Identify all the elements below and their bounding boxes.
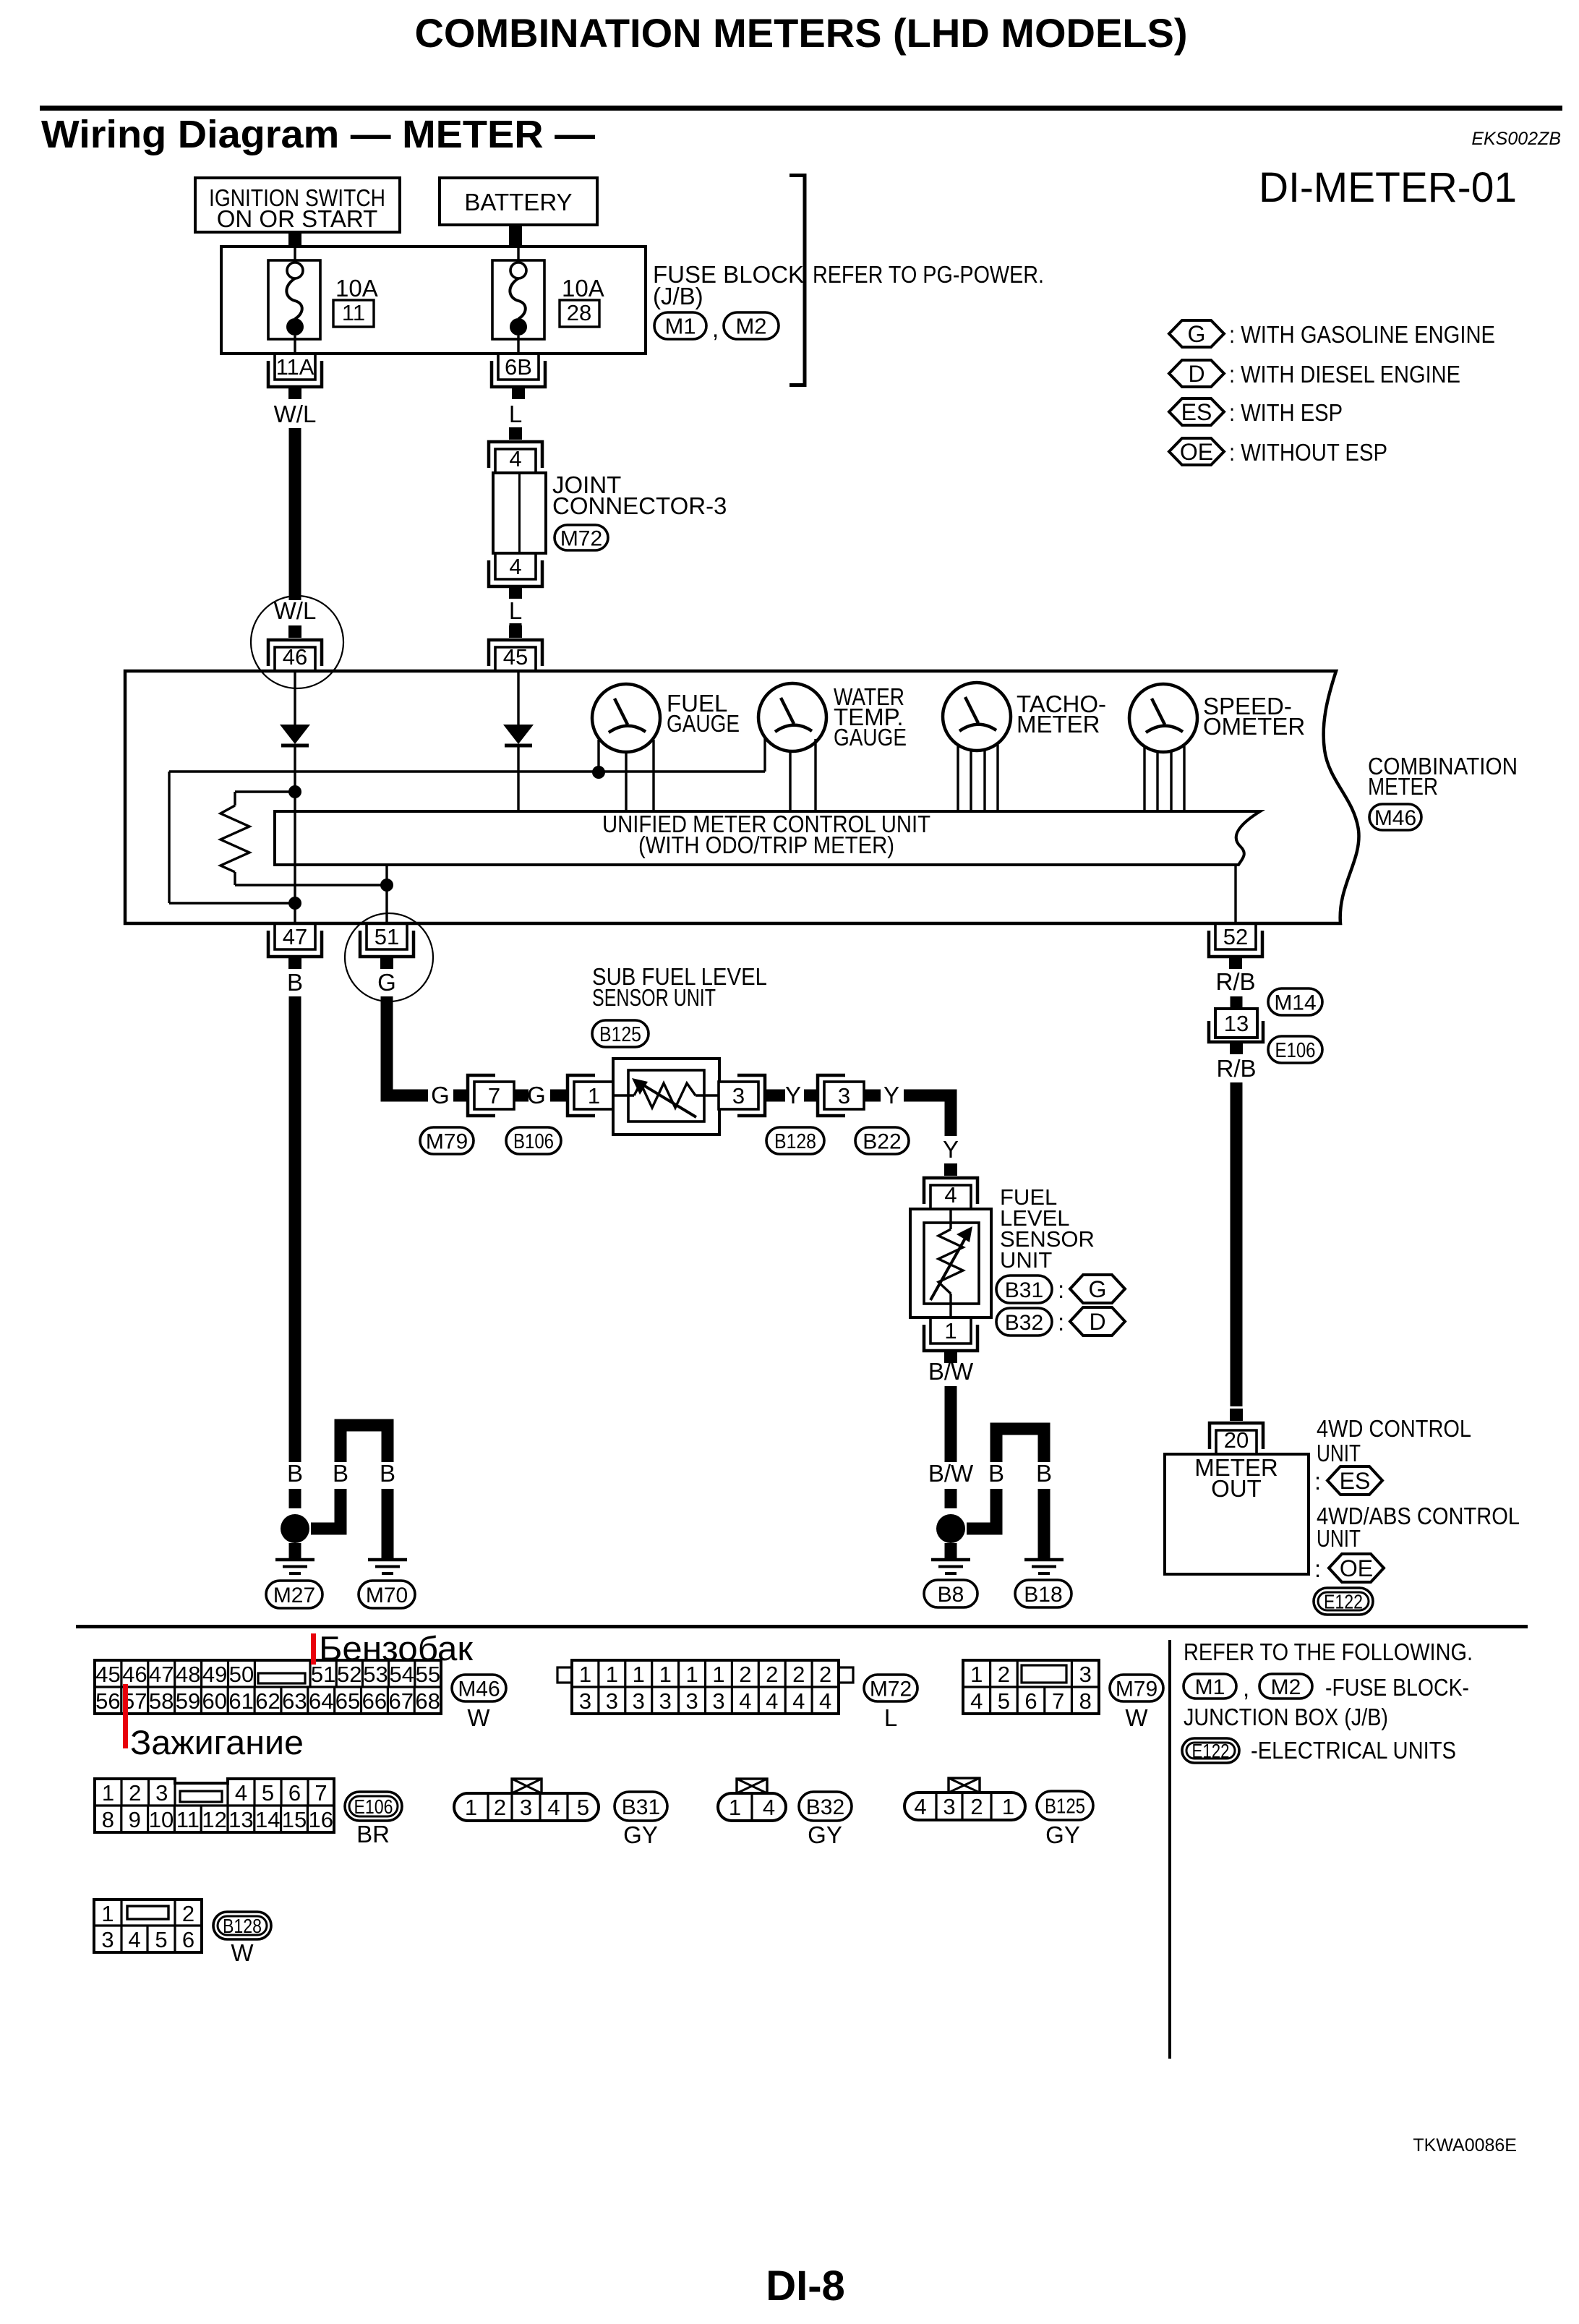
svg-text:7: 7 (1052, 1688, 1064, 1714)
svg-text:COMBINATION METERS (LHD MODELS: COMBINATION METERS (LHD MODELS) (415, 10, 1188, 56)
resistor bottom link (235, 884, 387, 886)
svg-text:4: 4 (792, 1688, 805, 1714)
wire into fuse 11 (294, 247, 296, 262)
svg-text:10: 10 (149, 1807, 174, 1832)
svg-text:14: 14 (255, 1807, 280, 1832)
svg-text:45: 45 (503, 644, 528, 670)
svg-text:3: 3 (1079, 1662, 1092, 1687)
connector M2 ref (1259, 1674, 1312, 1699)
svg-text:-FUSE BLOCK-: -FUSE BLOCK- (1325, 1674, 1469, 1701)
ground loop wire right (967, 1489, 996, 1529)
connector E122 label mid (1314, 1588, 1373, 1615)
diode 2 (503, 725, 534, 744)
connector B128 oval (213, 1912, 271, 1939)
svg-text:E122: E122 (1192, 1740, 1230, 1762)
svg-text::: : (1314, 1555, 1321, 1582)
wire W/L (289, 428, 301, 600)
svg-text:M2: M2 (1271, 1675, 1301, 1699)
red annotation line fuel tank (311, 1633, 316, 1665)
wire B/W (945, 1386, 957, 1462)
terminal 6B (498, 354, 539, 380)
wire from fuse 11 (294, 336, 296, 354)
svg-text:12: 12 (202, 1807, 226, 1832)
svg-text:GAUGE: GAUGE (834, 724, 907, 751)
svg-text:G: G (1188, 321, 1206, 347)
svg-text:7: 7 (488, 1083, 500, 1108)
resistor top link (235, 790, 295, 793)
svg-text:GAUGE: GAUGE (667, 710, 740, 737)
svg-text:5: 5 (155, 1927, 167, 1952)
connector E122 ref (1182, 1738, 1239, 1763)
connector E106 oval (345, 1792, 402, 1821)
svg-text:D: D (1188, 361, 1204, 387)
svg-text:1: 1 (944, 1318, 957, 1343)
joint connector terminal 4 upper (509, 427, 522, 440)
svg-text:2: 2 (998, 1662, 1010, 1687)
fuse number 11 (333, 300, 374, 327)
connector M79 oval (1110, 1675, 1163, 1701)
svg-text:2: 2 (129, 1780, 141, 1806)
svg-text:B: B (380, 1460, 395, 1487)
joint connector-3 body (493, 473, 546, 553)
svg-text:Wiring Diagram — METER —: Wiring Diagram — METER — (41, 113, 595, 156)
ground junction dot left (281, 1514, 309, 1543)
connector M79 label (420, 1127, 474, 1154)
svg-text:L: L (884, 1704, 897, 1731)
tachometer legs (957, 745, 959, 811)
svg-text:: WITH GASOLINE ENGINE: : WITH GASOLINE ENGINE (1229, 321, 1495, 348)
wire 46 to diode (294, 671, 296, 725)
terminal 45 (509, 625, 522, 638)
svg-text:2: 2 (494, 1795, 506, 1820)
svg-text:46: 46 (283, 644, 307, 670)
connector E106 pin grid (95, 1779, 334, 1832)
wire Y bend (904, 1095, 951, 1136)
connector M72 label (555, 525, 608, 550)
ground M27 label (266, 1581, 322, 1608)
wire stub 3 to Y (765, 1090, 785, 1102)
svg-text:4: 4 (509, 554, 521, 579)
svg-text:M46: M46 (1374, 806, 1416, 830)
svg-text:4: 4 (763, 1795, 775, 1820)
connector B125 pin row (949, 1778, 980, 1793)
terminal 13 bracket (1209, 1021, 1263, 1042)
connector M46 oval (452, 1675, 506, 1701)
svg-text:3: 3 (685, 1688, 698, 1714)
fuel sensor inner box (924, 1223, 979, 1304)
svg-text:Зажигание: Зажигание (130, 1723, 304, 1761)
variant hexagon D (1070, 1307, 1125, 1336)
connector B31 pin row (512, 1779, 542, 1793)
variant hexagon OE (1329, 1554, 1384, 1582)
svg-text:ON OR START: ON OR START (217, 205, 377, 232)
svg-text:M2: M2 (735, 314, 766, 339)
svg-text:64: 64 (309, 1688, 333, 1714)
terminal 1 sub sensor (568, 1075, 595, 1116)
svg-text:4: 4 (509, 446, 521, 471)
svg-text:8: 8 (102, 1807, 114, 1832)
svg-text:5: 5 (262, 1780, 274, 1806)
svg-text:B: B (988, 1460, 1004, 1487)
ground junction dot right (936, 1514, 965, 1543)
joint connector terminal 4 lower (495, 553, 536, 579)
svg-text:B32: B32 (806, 1795, 844, 1819)
terminal 52 (1215, 923, 1256, 949)
svg-text:1: 1 (685, 1662, 698, 1687)
svg-text:45: 45 (95, 1662, 120, 1687)
svg-text:B: B (287, 1460, 303, 1487)
internal left vertical wire (168, 772, 170, 903)
svg-text:: WITH DIESEL ENGINE: : WITH DIESEL ENGINE (1229, 361, 1460, 388)
svg-text:M72: M72 (870, 1677, 912, 1701)
connector E106 label mid (1268, 1036, 1322, 1063)
svg-text:B: B (333, 1460, 348, 1487)
ground M70 label (359, 1581, 415, 1608)
svg-text:Y: Y (943, 1136, 959, 1163)
wire B right leg (382, 1489, 394, 1560)
svg-text:L: L (509, 401, 522, 427)
wire L stub 2 (510, 623, 522, 637)
wire ignition to fuse block (288, 232, 301, 247)
wire B/W below dot (945, 1543, 957, 1558)
svg-text:R/B: R/B (1215, 968, 1255, 995)
svg-text:6: 6 (182, 1927, 194, 1952)
legend hexagon G (1169, 320, 1224, 347)
svg-text:UNIT: UNIT (1000, 1247, 1052, 1273)
fuel sensor resistor (949, 1209, 951, 1229)
svg-text:6: 6 (1024, 1688, 1037, 1714)
svg-text:49: 49 (202, 1662, 227, 1687)
svg-text:OE: OE (1180, 439, 1213, 465)
svg-text:(WITH ODO/TRIP METER): (WITH ODO/TRIP METER) (638, 832, 894, 858)
svg-text:48: 48 (176, 1662, 200, 1687)
terminal 46 highlight circle (251, 596, 343, 688)
svg-text:REFER TO PG-POWER.: REFER TO PG-POWER. (813, 261, 1044, 288)
svg-text:11A: 11A (276, 354, 314, 380)
ground symbol B8 (931, 1558, 970, 1562)
wire B stub to dot (289, 1489, 301, 1508)
bracket refer to PG-POWER (803, 174, 807, 387)
svg-text:6B: 6B (505, 354, 532, 380)
svg-text:B8: B8 (938, 1583, 964, 1607)
ground loop wire left (311, 1489, 341, 1529)
svg-text:B32: B32 (1005, 1311, 1043, 1335)
svg-text:GY: GY (623, 1821, 658, 1848)
connector B106 label (506, 1127, 561, 1154)
speedometer legs (1143, 746, 1145, 811)
diode 1 (280, 725, 310, 744)
svg-text:W/L: W/L (274, 597, 317, 624)
svg-text:DI-METER-01: DI-METER-01 (1259, 164, 1517, 211)
svg-text:1: 1 (659, 1662, 672, 1687)
junction dot 51 wire (380, 879, 393, 892)
svg-text:R/B: R/B (1216, 1055, 1256, 1082)
terminal 20 (1230, 1409, 1243, 1421)
svg-text:OUT: OUT (1211, 1475, 1262, 1502)
svg-text:4: 4 (819, 1688, 831, 1714)
terminal 3 sub sensor (737, 1075, 765, 1116)
svg-text:: WITHOUT ESP: : WITHOUT ESP (1229, 439, 1387, 466)
sub fuel level sensor unit box (613, 1059, 719, 1135)
svg-text:Бензобак: Бензобак (319, 1629, 473, 1667)
fuel gauge left leg (597, 740, 599, 772)
svg-text:Y: Y (785, 1082, 801, 1108)
svg-text:1: 1 (606, 1662, 618, 1687)
ground B8 label (924, 1580, 977, 1607)
terminal 4 fuel sensor (944, 1163, 957, 1176)
svg-text:TKWA0086E: TKWA0086E (1413, 2135, 1517, 2156)
svg-text:B125: B125 (1045, 1795, 1085, 1818)
internal bus top wire (169, 770, 765, 772)
connector M72 pin grid (557, 1660, 853, 1714)
wire into fuse 28 (517, 247, 519, 262)
svg-text:52: 52 (1223, 924, 1248, 949)
terminal 46 (288, 625, 301, 638)
wire diode2 to control unit (517, 746, 519, 811)
wire Y stub (804, 1090, 818, 1102)
unified meter control unit box (275, 811, 1260, 865)
svg-text:B: B (287, 969, 303, 996)
wire diode1 to junction (294, 746, 296, 792)
svg-text:50: 50 (229, 1662, 254, 1687)
connector B128 pin grid (94, 1900, 202, 1952)
svg-text::: : (1058, 1309, 1064, 1336)
wire 52 vertical (1234, 865, 1236, 923)
svg-text:B/W: B/W (928, 1460, 974, 1487)
svg-text:E106: E106 (354, 1795, 393, 1818)
svg-text:4: 4 (914, 1794, 926, 1819)
legend hexagon D (1169, 360, 1224, 387)
svg-text:5: 5 (998, 1688, 1010, 1714)
sub sensor resistor (613, 1094, 634, 1096)
svg-text:M1: M1 (664, 314, 696, 339)
svg-text:68: 68 (415, 1688, 440, 1714)
connector B22 label (855, 1127, 909, 1154)
svg-text:47: 47 (149, 1662, 174, 1687)
resistor R (221, 806, 249, 872)
section separator line (76, 1625, 1528, 1628)
svg-text:GY: GY (1045, 1821, 1080, 1848)
svg-text:4: 4 (235, 1780, 247, 1806)
connector M46 pin grid (95, 1660, 441, 1714)
svg-text:1: 1 (102, 1780, 114, 1806)
svg-text:METER: METER (1368, 773, 1438, 800)
svg-text:B106: B106 (513, 1130, 554, 1153)
svg-text:7: 7 (314, 1780, 327, 1806)
svg-text:3: 3 (520, 1795, 532, 1820)
svg-text:59: 59 (176, 1688, 200, 1714)
connector B31 oval (615, 1792, 667, 1821)
svg-text:W/L: W/L (274, 401, 317, 427)
svg-text::: : (1314, 1468, 1321, 1495)
legend hexagon OE (1169, 438, 1224, 465)
svg-text:3: 3 (659, 1688, 672, 1714)
wire R/B long (1231, 1082, 1243, 1406)
svg-text:15: 15 (282, 1807, 307, 1832)
wire G stub (453, 1090, 468, 1102)
wire B/W stub to dot (945, 1489, 957, 1508)
connector B32 pin row (737, 1779, 767, 1793)
ignition switch box (195, 178, 400, 232)
connector B125 oval (1037, 1791, 1093, 1820)
svg-text:28: 28 (567, 300, 591, 325)
connector B32 label (996, 1308, 1052, 1336)
junction dot lower (288, 897, 301, 910)
svg-text:M72: M72 (560, 526, 602, 550)
svg-text:B128: B128 (774, 1130, 816, 1153)
wire G bend (387, 996, 428, 1095)
fuse block box (221, 247, 646, 354)
wire B below dot (289, 1543, 301, 1558)
junction dot fuel gauge (592, 766, 605, 779)
svg-text:4: 4 (547, 1795, 560, 1820)
svg-text:20: 20 (1224, 1427, 1249, 1453)
connector M2 (724, 312, 779, 339)
connector M46 label (1369, 804, 1421, 830)
svg-text:9: 9 (129, 1807, 141, 1832)
wire from fuse 28 (517, 336, 519, 354)
svg-text:D: D (1089, 1309, 1105, 1335)
variant hexagon ES (1327, 1466, 1382, 1495)
svg-text:,: , (1243, 1675, 1249, 1701)
ground B18 label (1015, 1580, 1071, 1607)
svg-text:M27: M27 (273, 1584, 315, 1607)
svg-text:6: 6 (288, 1780, 301, 1806)
connector M1 ref (1184, 1674, 1236, 1699)
svg-text:2: 2 (182, 1901, 194, 1926)
legend hexagon ES (1169, 398, 1224, 425)
variant hexagon G (1070, 1275, 1125, 1303)
svg-text:M14: M14 (1274, 991, 1316, 1014)
svg-text:65: 65 (335, 1688, 360, 1714)
ground symbol M70 (368, 1558, 407, 1562)
svg-text:W: W (231, 1939, 254, 1966)
svg-text:B: B (1036, 1460, 1052, 1487)
svg-text:13: 13 (1224, 1011, 1249, 1036)
svg-text:66: 66 (362, 1688, 387, 1714)
wire 47 over control unit (294, 811, 296, 865)
svg-text:4WD CONTROL: 4WD CONTROL (1317, 1415, 1471, 1442)
svg-text:M70: M70 (366, 1584, 408, 1607)
water temp gauge legs (789, 751, 791, 811)
svg-text:67: 67 (389, 1688, 414, 1714)
svg-text:G: G (377, 969, 396, 996)
combination meter box (125, 671, 1359, 923)
svg-text:G: G (1089, 1276, 1107, 1302)
svg-text:,: , (712, 315, 719, 342)
title rule (40, 106, 1562, 111)
svg-text:W: W (467, 1704, 490, 1731)
svg-text:2: 2 (819, 1662, 831, 1687)
svg-text:3: 3 (155, 1780, 168, 1806)
connector B32 oval (799, 1792, 852, 1821)
svg-text:56: 56 (95, 1688, 120, 1714)
fuel gauge (592, 684, 660, 752)
svg-text:METER: METER (1017, 711, 1100, 738)
ground loop top left (341, 1425, 388, 1462)
svg-text:2: 2 (970, 1794, 983, 1819)
terminal 47 (275, 923, 315, 949)
svg-text:BATTERY: BATTERY (464, 189, 572, 215)
terminal 1 fuel sensor (930, 1317, 971, 1343)
connector B128 label (766, 1127, 824, 1154)
battery box (440, 178, 597, 225)
wire 47 vertical (294, 792, 296, 923)
connector M79 pin grid (963, 1660, 1099, 1714)
svg-text:4: 4 (128, 1927, 140, 1952)
svg-text:60: 60 (202, 1688, 227, 1714)
svg-text:3: 3 (712, 1688, 724, 1714)
svg-text:5: 5 (577, 1795, 589, 1820)
svg-text:L: L (509, 597, 522, 624)
svg-text:M46: M46 (458, 1677, 500, 1701)
svg-text:61: 61 (228, 1688, 253, 1714)
terminal 51 (367, 923, 407, 949)
fuel sensor wiper arrow (930, 1236, 967, 1300)
svg-text:B18: B18 (1024, 1583, 1062, 1607)
svg-text:10A: 10A (335, 275, 378, 302)
ground symbol M27 (275, 1558, 314, 1562)
connector B125 label (592, 1020, 649, 1047)
fuel level sensor unit box (910, 1209, 991, 1317)
svg-text:3: 3 (579, 1688, 591, 1714)
svg-text:M79: M79 (426, 1129, 468, 1153)
svg-text:BR: BR (356, 1821, 390, 1847)
svg-text:B125: B125 (599, 1023, 641, 1046)
fuse 28 (10A) (492, 260, 544, 339)
svg-text:63: 63 (282, 1688, 307, 1714)
svg-text:OMETER: OMETER (1203, 713, 1305, 740)
red annotation line ignition (123, 1684, 128, 1748)
svg-text:E122: E122 (1324, 1591, 1363, 1613)
terminal 3 harness (818, 1075, 845, 1116)
wire stub 7 to G (514, 1090, 529, 1102)
wire R/B stub (1231, 996, 1243, 1009)
svg-text:13: 13 (228, 1807, 253, 1832)
svg-text:46: 46 (122, 1662, 147, 1687)
svg-text:M1: M1 (1195, 1675, 1225, 1699)
svg-text:3: 3 (732, 1083, 745, 1108)
svg-text:B/W: B/W (928, 1358, 974, 1385)
connector M14 label (1268, 988, 1322, 1015)
wire G stub 2 (550, 1090, 568, 1102)
tachometer gauge (943, 683, 1011, 751)
svg-text:1: 1 (101, 1901, 114, 1926)
connector B31 label (996, 1276, 1052, 1303)
terminal 13 box (1215, 1009, 1257, 1038)
svg-text:11: 11 (176, 1807, 200, 1832)
svg-text:1: 1 (970, 1662, 983, 1687)
terminal 7 (468, 1075, 495, 1116)
svg-text:3: 3 (943, 1794, 955, 1819)
svg-text:4: 4 (766, 1688, 778, 1714)
svg-text:1: 1 (633, 1662, 645, 1687)
svg-text:4: 4 (944, 1182, 957, 1208)
svg-text:47: 47 (283, 924, 307, 949)
sub sensor inner box (628, 1070, 704, 1122)
svg-text:2: 2 (766, 1662, 778, 1687)
meter out box (1165, 1454, 1309, 1574)
svg-text:(J/B): (J/B) (653, 283, 703, 309)
svg-text:1: 1 (729, 1795, 741, 1820)
svg-text:16: 16 (309, 1807, 333, 1832)
svg-text:B31: B31 (1005, 1278, 1043, 1302)
wire B long (289, 996, 301, 1462)
svg-text:G: G (527, 1082, 546, 1108)
connector M72 oval (864, 1675, 917, 1701)
svg-text:58: 58 (149, 1688, 174, 1714)
svg-text:3: 3 (101, 1927, 114, 1952)
